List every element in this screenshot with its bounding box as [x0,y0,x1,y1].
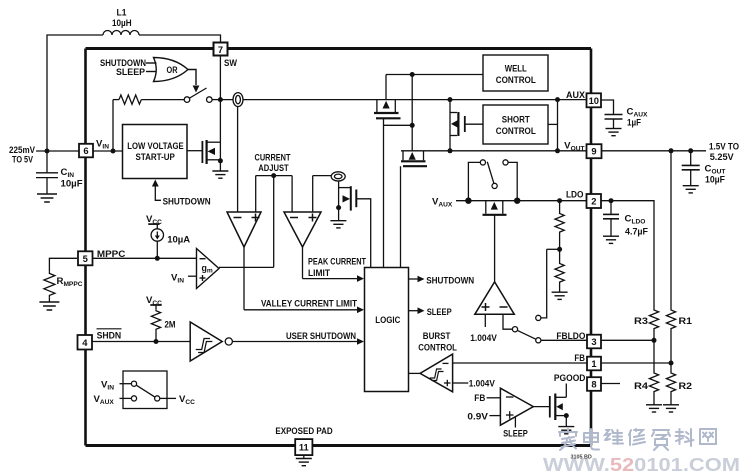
svg-text:10µH: 10µH [112,18,132,29]
svg-text:3105 BD: 3105 BD [571,455,592,461]
svg-text:ADJUST: ADJUST [258,163,289,174]
svg-text:10µA: 10µA [167,235,190,246]
svg-text:FBLDO: FBLDO [556,331,585,342]
svg-text:LOGIC: LOGIC [375,315,400,326]
svg-text:R4: R4 [634,381,649,392]
svg-text:R2: R2 [679,381,693,392]
svg-text:10: 10 [589,95,599,106]
svg-text:START-UP: START-UP [136,152,176,163]
svg-text:11: 11 [299,442,309,453]
svg-text:LOW VOLTAGE: LOW VOLTAGE [127,141,184,152]
svg-text:MPPC: MPPC [97,249,126,260]
svg-text:1µF: 1µF [627,118,641,129]
svg-text:5: 5 [83,253,88,264]
svg-text:3: 3 [591,336,596,347]
svg-text:1: 1 [591,358,596,369]
svg-text:9: 9 [591,146,596,157]
svg-text:BURST: BURST [423,331,451,342]
svg-text:CONTROL: CONTROL [496,75,536,86]
svg-text:4.7µF: 4.7µF [625,227,648,238]
svg-text:PGOOD: PGOOD [554,373,586,384]
svg-text:SLEEP: SLEEP [116,67,146,78]
svg-text:1.004V: 1.004V [469,378,496,389]
svg-text:LDO: LDO [566,190,584,201]
svg-text:CURRENT: CURRENT [255,153,291,164]
svg-text:WELL: WELL [505,64,527,75]
svg-text:R1: R1 [679,316,693,327]
svg-text:5.25V: 5.25V [710,152,735,163]
svg-text:LIMIT: LIMIT [308,268,330,279]
svg-text:CONTROL: CONTROL [496,126,536,137]
svg-text:SHUTDOWN: SHUTDOWN [426,275,474,286]
svg-text:SLEEP: SLEEP [503,429,528,440]
svg-text:USER SHUTDOWN: USER SHUTDOWN [286,331,356,342]
svg-text:2: 2 [591,196,596,207]
svg-text:7: 7 [218,44,223,55]
svg-text:R3: R3 [634,316,648,327]
svg-text:SHDN: SHDN [97,330,122,341]
svg-text:EXPOSED PAD: EXPOSED PAD [275,426,332,437]
svg-text:PEAK CURRENT: PEAK CURRENT [308,256,366,267]
svg-text:10µF: 10µF [705,175,725,186]
svg-text:AUX: AUX [566,90,586,101]
svg-text:0.9V: 0.9V [467,412,488,423]
svg-text:VALLEY CURRENT LIMIT: VALLEY CURRENT LIMIT [261,298,357,309]
svg-text:1.5V TO: 1.5V TO [709,142,739,153]
svg-text:8: 8 [591,379,596,390]
svg-text:1.004V: 1.004V [470,333,497,344]
svg-text:4: 4 [82,337,88,348]
svg-text:6: 6 [83,145,88,156]
svg-text:CONTROL: CONTROL [418,342,457,353]
svg-text:FB: FB [474,393,485,404]
svg-text:OR: OR [167,65,179,75]
svg-text:SHUTDOWN: SHUTDOWN [163,197,211,208]
svg-text:SLEEP: SLEEP [427,307,452,318]
svg-text:2M: 2M [165,320,176,331]
svg-text:SW: SW [224,58,238,69]
svg-text:L1: L1 [117,8,128,19]
svg-text:TO 5V: TO 5V [12,155,33,166]
svg-text:FB: FB [574,353,585,364]
svg-text:SHORT: SHORT [502,115,530,126]
svg-text:10µF: 10µF [61,179,83,190]
